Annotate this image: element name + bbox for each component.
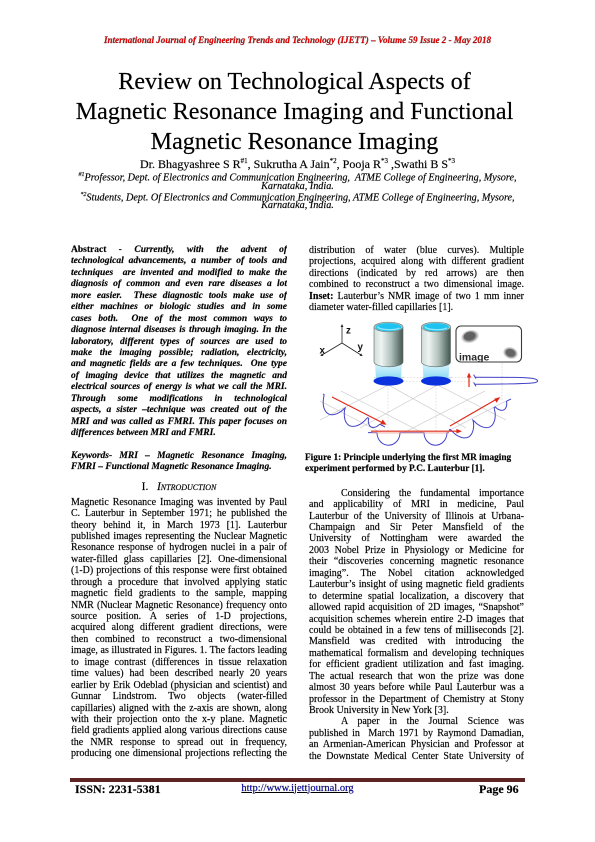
right column : first paragraph xyxy=(309,245,524,314)
light beam 2 xyxy=(423,364,450,379)
left column xyxy=(71,245,287,760)
projection curve left (two peaks) xyxy=(323,394,385,428)
red gradient arrow bottom xyxy=(371,429,462,434)
inset image box xyxy=(456,326,522,363)
red gradient arrow right xyxy=(450,397,500,426)
svg-text:z: z xyxy=(346,326,351,337)
authors xyxy=(0,157,595,172)
journal header xyxy=(0,35,595,45)
axis arrowheads xyxy=(320,324,362,356)
axis labels x y z xyxy=(320,326,364,357)
light beam 1 xyxy=(375,364,402,379)
affiliations xyxy=(0,171,595,211)
xyz axes xyxy=(322,326,361,355)
projection ellipse 1 xyxy=(374,376,404,385)
test tube 2 xyxy=(422,322,451,367)
projection curve bottom (two dips) xyxy=(368,433,449,446)
footer text xyxy=(0,781,595,783)
footer rule xyxy=(70,778,525,782)
svg-text:image: image xyxy=(459,351,490,363)
figure 1 : first MR imaging experiment xyxy=(303,315,545,451)
dashed guide lines xyxy=(388,363,535,431)
projection curve right (two peaks) xyxy=(449,399,511,438)
grid plane xyxy=(320,377,506,433)
paper title xyxy=(0,67,592,157)
test tube 1 xyxy=(374,322,403,367)
pale red baseline overlay xyxy=(372,432,449,434)
figure caption + following paragraphs xyxy=(305,453,524,476)
projection ellipse 2 xyxy=(421,376,451,385)
red arrow small vertical xyxy=(467,373,471,388)
svg-text:x: x xyxy=(320,346,326,357)
svg-text:y: y xyxy=(358,342,364,353)
red gradient arrow left xyxy=(332,397,387,425)
projection curve far right (single peak, y direction) xyxy=(475,377,538,384)
